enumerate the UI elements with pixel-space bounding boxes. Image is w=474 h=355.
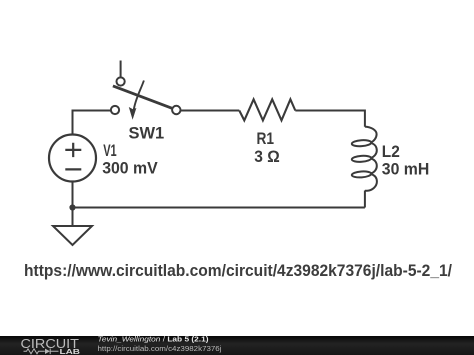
wire: switch right terminal to resistor R1	[181, 110, 240, 112]
switch SW1 arrowhead	[129, 107, 137, 120]
voltage source V1 circle	[49, 135, 96, 182]
ground symbol	[53, 208, 92, 246]
wire: bottom return wire to ground node	[73, 207, 365, 209]
wire: V1 top to switch left terminal	[73, 111, 111, 135]
wire: switch SW1 top terminal stub	[120, 61, 122, 78]
switch SW1 blade	[113, 86, 172, 108]
wire: inductor L2 bottom lead	[364, 191, 366, 208]
voltage source V1 minus sign	[65, 168, 81, 170]
voltage source V1 plus sign	[65, 143, 81, 157]
svg-text:Tevin_Wellington / Lab 5 (2.1): Tevin_Wellington / Lab 5 (2.1)	[98, 335, 210, 344]
wire: resistor R1 to inductor L2 top corner	[295, 111, 365, 127]
svg-text:3 Ω: 3 Ω	[254, 148, 279, 166]
svg-text:L2: L2	[382, 143, 400, 161]
footer bar background	[0, 336, 474, 355]
wire: V1 bottom lead to ground node	[72, 182, 74, 208]
svg-text:LAB: LAB	[60, 347, 81, 355]
switch SW1 left terminal circle	[111, 106, 119, 114]
svg-text:http://circuitlab.com/c4z3982k: http://circuitlab.com/c4z3982k7376j	[98, 344, 222, 353]
svg-text:30 mH: 30 mH	[382, 160, 430, 178]
svg-text:V1: V1	[103, 142, 117, 160]
svg-text:300 mV: 300 mV	[102, 159, 158, 177]
switch SW1 top terminal circle	[117, 77, 125, 85]
svg-text:SW1: SW1	[129, 125, 165, 143]
node: junction dot at ground net	[69, 204, 75, 210]
switch SW1 right terminal circle	[172, 106, 180, 114]
svg-text:https://www.circuitlab.com/cir: https://www.circuitlab.com/circuit/4z398…	[24, 261, 452, 280]
switch SW1 actuation arrow arc	[134, 81, 144, 111]
svg-text:R1: R1	[257, 130, 275, 148]
inductor L2 coil	[365, 127, 377, 191]
resistor R1 zigzag	[239, 99, 295, 120]
CircuitLab logo circuit glyph (resistor and diode)	[24, 349, 59, 355]
